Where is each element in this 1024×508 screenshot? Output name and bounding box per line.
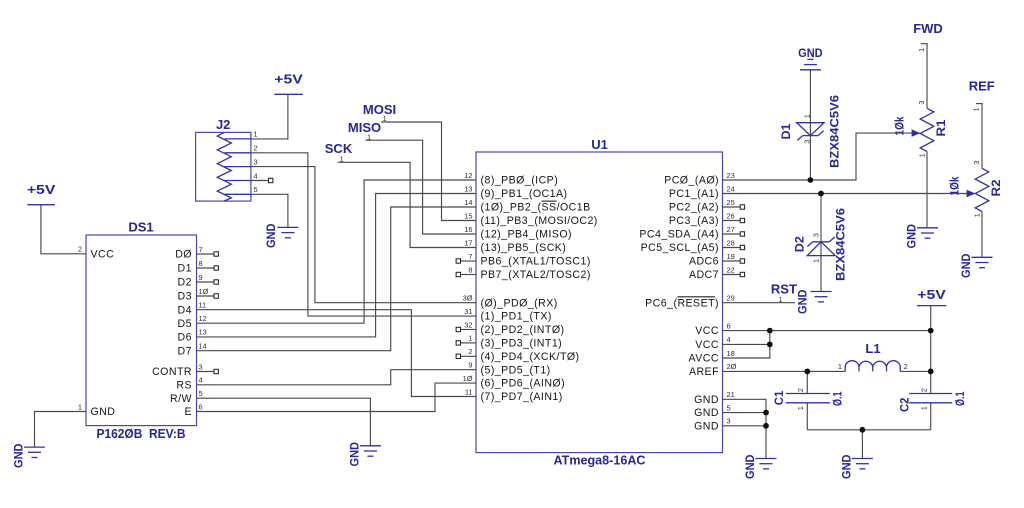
svg-text:PC5_SCL_(A5): PC5_SCL_(A5) (641, 242, 719, 254)
svg-text:(1)_PD1_(TX): (1)_PD1_(TX) (481, 311, 552, 323)
J2 pin 3 (254, 157, 258, 166)
U1 pin 30 (Ø)_PDØ_(RX) (463, 294, 558, 310)
svg-text:DS1: DS1 (128, 220, 153, 235)
net label SCK (325, 141, 353, 164)
svg-text:6: 6 (727, 321, 731, 330)
wire MISO to U1 PB4 pin 16 (366, 140, 477, 234)
svg-text:25: 25 (727, 198, 735, 207)
svg-text:2: 2 (468, 347, 472, 356)
svg-text:ATmega8-16AC: ATmega8-16AC (554, 453, 647, 468)
svg-text:D5: D5 (178, 318, 192, 330)
svg-text:VCC: VCC (91, 248, 115, 260)
svg-text:(13)_PB5_(SCK): (13)_PB5_(SCK) (481, 242, 567, 254)
svg-text:11: 11 (199, 301, 207, 310)
svg-text:R2: R2 (989, 179, 1003, 196)
wire C2 bottom lead (930, 403, 932, 430)
capacitor C1 0.1 (772, 388, 844, 410)
LCD module DS1 P1620B REV:B body (86, 220, 197, 441)
DS1 pin 6 E (184, 402, 202, 418)
svg-text:D2: D2 (178, 277, 192, 289)
ground (R1 bottom) (905, 224, 939, 249)
U1 pin 21 GND (694, 390, 735, 406)
svg-text:1: 1 (468, 334, 472, 343)
svg-text:VCC: VCC (695, 339, 719, 351)
wire U1 GND pin 21 to ground (723, 399, 767, 458)
ground (U1 GND pins) (743, 454, 777, 479)
DS1 pin 8 D1 (178, 259, 219, 275)
svg-text:3: 3 (917, 100, 926, 104)
junction VCC pin4/AVCC tie (767, 342, 773, 348)
wire U1 AVCC pin 18 tie (723, 344, 770, 358)
DS1 pin 3 CONTR (152, 362, 218, 378)
svg-text:7: 7 (468, 252, 472, 261)
svg-text:15: 15 (464, 211, 472, 220)
svg-text:GND: GND (91, 406, 116, 418)
svg-text:D2: D2 (793, 236, 807, 252)
svg-text:FWD: FWD (913, 21, 943, 36)
J2 pin 5 (254, 185, 258, 194)
svg-text:14: 14 (464, 198, 472, 207)
svg-text:BZX84C5V6: BZX84C5V6 (828, 95, 842, 168)
svg-text:AREF: AREF (689, 366, 719, 378)
svg-text:PC2_(A2): PC2_(A2) (669, 202, 719, 214)
wire R1 bottom to ground (926, 152, 928, 228)
svg-text:GND: GND (839, 454, 853, 479)
svg-text:R1: R1 (934, 119, 948, 136)
svg-text:RST: RST (771, 281, 797, 296)
wire J2 pin 2 to U1 PD1 pin 31 (251, 153, 476, 316)
svg-text:+5V: +5V (274, 72, 303, 87)
svg-text:(12)_PB4_(MISO): (12)_PB4_(MISO) (481, 229, 573, 241)
net label RST (771, 281, 797, 304)
U1 pin 5 GND (694, 403, 731, 419)
svg-text:GND: GND (743, 454, 757, 479)
U1 pin 15 (11)_PB3_(MOSI/OC2) (464, 211, 598, 227)
DS1 pin 7 DØ (175, 245, 218, 261)
svg-text:E: E (184, 406, 192, 418)
connector J2 body with resistor ladder (196, 117, 251, 201)
svg-text:21: 21 (727, 390, 735, 399)
svg-text:9: 9 (468, 361, 472, 370)
junction GND pin3 tie (763, 423, 769, 429)
svg-text:(9)_PB1_(OC1A): (9)_PB1_(OC1A) (481, 188, 568, 200)
wire J2 pin 5 to ground (251, 194, 288, 227)
DS1 pin 10 D3 (178, 287, 219, 303)
svg-text:8: 8 (199, 259, 203, 268)
wire C1 top lead (806, 371, 808, 393)
svg-text:32: 32 (464, 320, 472, 329)
U1 pin 8 PB7_(XTAL2/TOSC2) (456, 265, 591, 281)
junction PC1/D2 node (818, 191, 824, 197)
net label MOSI (363, 102, 396, 123)
svg-text:2: 2 (920, 388, 929, 392)
ground (J2 pin 5) (264, 223, 298, 248)
svg-text:6: 6 (199, 402, 203, 411)
svg-text:1Ø: 1Ø (199, 287, 209, 296)
wire VCC tie vertical (769, 331, 771, 345)
svg-text:23: 23 (727, 171, 735, 180)
svg-text:7: 7 (199, 245, 203, 254)
wire FWD to R1 top (926, 44, 928, 109)
svg-text:9: 9 (199, 273, 203, 282)
svg-text:(11)_PB3_(MOSI/OC2): (11)_PB3_(MOSI/OC2) (481, 215, 598, 227)
svg-text:3: 3 (727, 417, 731, 426)
wire SCK to U1 PB5 pin 17 (338, 162, 476, 247)
svg-text:29: 29 (727, 294, 735, 303)
wire U1 PB2 pin 14 to DS1 D7 (197, 207, 477, 351)
svg-text:2: 2 (78, 245, 82, 254)
svg-text:GND: GND (694, 394, 719, 406)
svg-text:13: 13 (199, 328, 207, 337)
svg-text:ADC6: ADC6 (689, 256, 719, 268)
svg-text:D1: D1 (178, 263, 192, 275)
wire L1 pin 2 to +5V rail (900, 370, 930, 372)
power +5V (above J2) (274, 72, 303, 95)
svg-text:1: 1 (972, 107, 981, 111)
wire MOSI to U1 PB3 pin 15 (381, 122, 476, 221)
junction PC0/D1 node (808, 177, 814, 183)
svg-text:4: 4 (254, 171, 258, 180)
DS1 pin 11 D4 (178, 301, 207, 317)
wire DS1 E to U1 PD6 pin 10 (197, 383, 477, 411)
J2 pin 1 (254, 130, 258, 139)
wire C1 C2 bottom bus (807, 429, 930, 431)
U1 pin 20 AREF (689, 362, 737, 378)
svg-text:3: 3 (811, 233, 820, 237)
svg-text:GND: GND (694, 407, 719, 419)
svg-text:12: 12 (199, 314, 207, 323)
svg-text:1: 1 (811, 259, 820, 263)
wire U1 pin 29 RST stub (723, 302, 796, 304)
wire +5V to J2 pin 1 (251, 94, 288, 139)
svg-text:D3: D3 (178, 291, 192, 303)
ground (above D1, flipped) (798, 46, 823, 70)
wire U1 PB0 pin 12 to DS1 D5 (197, 180, 477, 323)
svg-text:BZX84C5V6: BZX84C5V6 (834, 208, 848, 281)
svg-text:GND: GND (796, 289, 810, 314)
svg-text:GND: GND (798, 46, 823, 60)
svg-text:PC4_SDA_(A4): PC4_SDA_(A4) (639, 229, 719, 241)
U1 pin 28 PC5_SCL_(A5) (641, 238, 745, 254)
capacitor C2 0.1 (898, 388, 967, 412)
svg-text:PCØ_(AØ): PCØ_(AØ) (664, 175, 719, 187)
wire PC1 net to D2 and ground (820, 194, 822, 292)
svg-text:L1: L1 (865, 341, 880, 356)
svg-text:(2)_PD2_(INTØ): (2)_PD2_(INTØ) (481, 324, 565, 336)
svg-text:GND: GND (12, 443, 26, 468)
svg-text:(Ø)_PDØ_(RX): (Ø)_PDØ_(RX) (481, 297, 558, 309)
svg-text:(8)_PBØ_(ICP): (8)_PBØ_(ICP) (481, 175, 559, 187)
svg-text:D7: D7 (178, 345, 192, 357)
svg-text:(5)_PD5_(T1): (5)_PD5_(T1) (481, 364, 551, 376)
svg-text:14: 14 (199, 342, 207, 351)
U1 pin 13 (9)_PB1_(OC1A) (464, 184, 567, 200)
svg-text:AVCC: AVCC (689, 353, 719, 365)
svg-text:19: 19 (727, 252, 735, 261)
U1 pin 3 GND (694, 417, 731, 433)
U1 pin 23 PCØ_(AØ) (664, 171, 735, 187)
svg-text:PC6_(RESET): PC6_(RESET) (645, 297, 719, 309)
U1 pin 24 PC1_(A1) (669, 184, 735, 200)
U1 pin 14 (1Ø)_PB2_(SS/OC1B (464, 198, 590, 214)
svg-text:2Ø: 2Ø (727, 362, 737, 371)
svg-text:GND: GND (347, 442, 361, 467)
IC U1 microcontroller ATmega8-16AC body (476, 137, 723, 468)
DS1 pin 9 D2 (178, 273, 219, 289)
svg-text:24: 24 (727, 184, 735, 193)
svg-text:DØ: DØ (175, 249, 192, 261)
svg-text:2: 2 (254, 144, 258, 153)
svg-text:+5V: +5V (27, 182, 56, 197)
svg-text:Ø.1: Ø.1 (953, 391, 967, 406)
U1 pin 19 ADC6 (689, 252, 745, 268)
wire R2 bottom to ground (981, 212, 983, 258)
U1 pin 32 (2)_PD2_(INTØ) (456, 320, 564, 336)
svg-text:17: 17 (464, 238, 472, 247)
zener diode D1 BZX84C5V6 (779, 95, 842, 168)
svg-text:(7)_PD7_(AIN1): (7)_PD7_(AIN1) (481, 391, 563, 403)
svg-text:1: 1 (838, 362, 842, 371)
U1 pin 16 (12)_PB4_(MISO) (464, 225, 572, 241)
zener diode D2 BZX84C5V6 (793, 208, 848, 281)
J2 pin 2 (254, 144, 258, 153)
svg-text:REF: REF (969, 79, 995, 94)
svg-text:28: 28 (727, 238, 735, 247)
svg-text:2: 2 (904, 362, 908, 371)
svg-text:MISO: MISO (348, 120, 381, 135)
svg-text:11: 11 (465, 387, 473, 396)
junction +5V rail at VCC row (928, 328, 934, 334)
DS1 pin 14 D7 (178, 342, 207, 358)
U1 pin 29 PC6_(RESET) (645, 294, 735, 310)
U1 pin 22 ADC7 (689, 265, 745, 281)
svg-text:16: 16 (464, 225, 472, 234)
svg-text:1: 1 (78, 402, 82, 411)
U1 pin 1 (3)_PD3_(INT1) (456, 334, 562, 350)
svg-text:PB7_(XTAL2/TOSC2): PB7_(XTAL2/TOSC2) (481, 269, 591, 281)
junction +5V rail at L1/C2 (928, 369, 934, 375)
svg-text:D6: D6 (178, 332, 192, 344)
svg-text:(1Ø)_PB2_(SS/OC1B: (1Ø)_PB2_(SS/OC1B (481, 202, 591, 214)
svg-text:(3)_PD3_(INT1): (3)_PD3_(INT1) (481, 338, 563, 350)
wire U1 AREF pin 20 to L1 pin 1 (723, 370, 846, 372)
svg-text:3: 3 (199, 362, 203, 371)
svg-text:D4: D4 (178, 304, 192, 316)
ground (R2 bottom) (959, 253, 993, 278)
wire +5V rail vertical (930, 306, 932, 394)
svg-text:3: 3 (972, 160, 981, 164)
svg-text:R/W: R/W (170, 393, 192, 405)
svg-text:26: 26 (727, 211, 735, 220)
svg-text:1: 1 (972, 213, 981, 217)
svg-text:31: 31 (464, 307, 472, 316)
U1 pin 6 VCC (695, 321, 730, 337)
ground (R/W net) (347, 442, 381, 467)
svg-text:2: 2 (796, 388, 805, 392)
svg-text:C2: C2 (898, 397, 912, 412)
junction VCC pin6/pin4 tie (767, 328, 773, 334)
svg-text:3: 3 (254, 157, 258, 166)
svg-text:5: 5 (727, 403, 731, 412)
wire DS1 R/W to ground (197, 398, 371, 446)
svg-text:13: 13 (464, 184, 472, 193)
power +5V (left, to DS1 VCC) (27, 182, 56, 205)
svg-text:C1: C1 (772, 390, 786, 405)
junction AREF/C1 node (804, 369, 810, 375)
svg-text:22: 22 (727, 265, 735, 274)
svg-text:1Ø: 1Ø (463, 374, 473, 383)
DS1 pin 5 R/W (170, 389, 203, 405)
junction GND pin5 tie (763, 410, 769, 416)
U1 pin 12 (8)_PBØ_(ICP) (464, 171, 558, 187)
DS1 pin 1 GND (78, 402, 116, 418)
svg-text:(6)_PD6_(AINØ): (6)_PD6_(AINØ) (481, 378, 566, 390)
ground (C1 C2 common) (839, 454, 873, 479)
wire U1 GND pin 3 tie (723, 425, 767, 427)
svg-text:+5V: +5V (917, 287, 946, 302)
svg-text:GND: GND (694, 420, 719, 432)
potentiometer R2 10k (947, 160, 1003, 217)
svg-text:5: 5 (254, 185, 258, 194)
wire ground to D1 anode (809, 70, 811, 180)
svg-text:4: 4 (199, 376, 203, 385)
power +5V (right, VCC rail) (917, 287, 946, 305)
U1 pin 11 (7)_PD7_(AIN1) (465, 387, 563, 403)
U1 pin 10 (6)_PD6_(AINØ) (463, 374, 565, 390)
wire C1 bottom lead (806, 403, 808, 430)
svg-text:27: 27 (727, 225, 735, 234)
svg-text:1: 1 (796, 406, 805, 410)
DS1 pin 4 RS (176, 376, 202, 392)
U1 pin 7 PB6_(XTAL1/TOSC1) (456, 252, 591, 268)
svg-text:MOSI: MOSI (363, 102, 396, 117)
wire J2 pin 3 to U1 PD0 pin 30 (251, 167, 476, 303)
net label MISO (348, 120, 381, 142)
potentiometer R1 10k (892, 100, 948, 157)
ground (DS1 pin 1) (12, 443, 46, 468)
svg-text:1: 1 (917, 153, 926, 157)
svg-text:PC3_(A3): PC3_(A3) (669, 215, 719, 227)
svg-text:1: 1 (917, 48, 926, 52)
svg-text:8: 8 (468, 265, 472, 274)
inductor L1 (838, 341, 908, 371)
svg-text:VCC: VCC (695, 325, 719, 337)
wire DS1 D4 to U1 PD7 pin 11 (197, 310, 477, 397)
svg-text:12: 12 (464, 171, 472, 180)
U1 pin 9 (5)_PD5_(T1) (468, 361, 550, 377)
U1 pin 27 PC4_SDA_(A4) (639, 225, 744, 241)
wire U1 PC1 pin 24 to R2 wiper (723, 193, 968, 195)
wire REF to R2 top (981, 104, 983, 169)
net label FWD (913, 21, 943, 52)
ground (below D2) (796, 289, 832, 314)
net label REF (969, 79, 995, 112)
svg-text:PC1_(A1): PC1_(A1) (669, 188, 719, 200)
U1 pin 31 (1)_PD1_(TX) (464, 307, 552, 323)
svg-text:J2: J2 (216, 117, 230, 132)
svg-text:GND: GND (264, 223, 278, 248)
svg-text:ADC7: ADC7 (689, 269, 719, 281)
svg-text:D1: D1 (779, 123, 793, 139)
U1 pin 18 AVCC (689, 349, 735, 365)
svg-text:18: 18 (727, 349, 735, 358)
U1 pin 25 PC2_(A2) (669, 198, 745, 214)
wire DS1 RS to U1 PD5 pin 9 (197, 370, 477, 385)
J2 pin 4 (251, 171, 273, 182)
svg-text:RS: RS (176, 379, 192, 391)
svg-text:1Øk: 1Øk (947, 176, 961, 195)
svg-text:P162ØB REV:B: P162ØB REV:B (97, 426, 186, 441)
U1 pin 26 PC3_(A3) (669, 211, 745, 227)
wire U1 PB1 pin 13 to DS1 D6 (197, 194, 477, 337)
svg-text:3Ø: 3Ø (463, 294, 473, 303)
wire bottom bus to ground (861, 430, 863, 459)
svg-text:1: 1 (920, 406, 929, 410)
wire U1 VCC pin 6 to +5V rail (723, 330, 931, 332)
U1 pin 2 (4)_PD4_(XCK/TØ) (456, 347, 579, 363)
wire U1 VCC pin 4 tie (723, 343, 770, 345)
svg-text:1: 1 (254, 130, 258, 139)
svg-text:4: 4 (727, 335, 731, 344)
wire U1 GND pin 5 tie (723, 412, 767, 414)
wire U1 PC0 pin 23 to R1 wiper (723, 133, 913, 180)
svg-text:(4)_PD4_(XCK/TØ): (4)_PD4_(XCK/TØ) (481, 351, 580, 363)
svg-text:CONTR: CONTR (152, 366, 192, 378)
DS1 pin 12 D5 (178, 314, 207, 330)
DS1 pin 13 D6 (178, 328, 207, 344)
U1 pin 4 VCC (695, 335, 730, 351)
svg-text:GND: GND (905, 224, 919, 249)
svg-text:PB6_(XTAL1/TOSC1): PB6_(XTAL1/TOSC1) (481, 256, 591, 268)
svg-text:U1: U1 (591, 137, 608, 152)
svg-text:5: 5 (199, 389, 203, 398)
wire +5V to DS1 VCC pin 2 (41, 205, 86, 254)
svg-text:Ø.1: Ø.1 (830, 391, 844, 406)
junction bottom bus to ground (860, 427, 866, 433)
svg-text:GND: GND (959, 253, 973, 278)
wire DS1 GND pin 1 to ground (35, 412, 87, 448)
DS1 pin 2 VCC (78, 245, 114, 261)
U1 pin 17 (13)_PB5_(SCK) (464, 238, 566, 254)
